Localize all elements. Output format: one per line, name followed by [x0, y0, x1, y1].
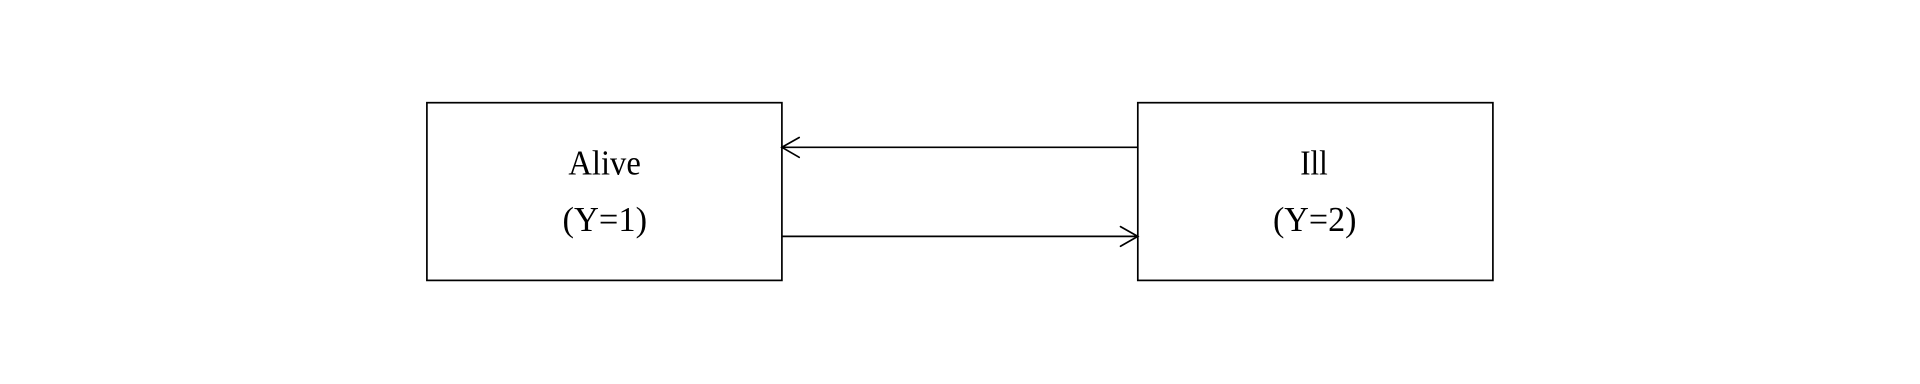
arrowhead left — [782, 138, 799, 158]
state box Ill — [1138, 103, 1493, 281]
svg-text:(Y=2): (Y=2) — [1273, 200, 1357, 239]
svg-text:Alive: Alive — [568, 144, 641, 183]
svg-text:Ill: Ill — [1300, 144, 1328, 183]
arrow Alive to Ill (bottom) — [782, 235, 1138, 237]
arrowhead right — [1121, 227, 1138, 247]
arrow Ill to Alive (top) — [782, 146, 1138, 148]
svg-text:(Y=1): (Y=1) — [563, 200, 648, 239]
state box Alive — [427, 103, 782, 281]
